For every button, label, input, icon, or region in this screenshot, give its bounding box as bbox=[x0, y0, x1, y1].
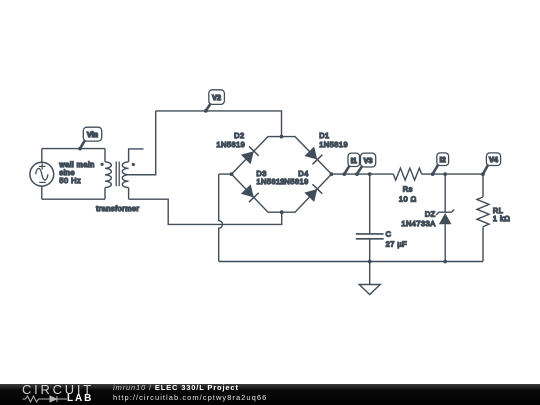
capacitor C branch wire bottom bbox=[369, 239, 371, 262]
zener diode DZ bbox=[436, 210, 454, 225]
resistor Rs bbox=[393, 168, 421, 180]
footer title text bbox=[113, 383, 267, 402]
diode D1 bbox=[304, 146, 322, 164]
V2 flag bbox=[204, 90, 225, 113]
node left of bridge bbox=[230, 172, 234, 176]
ground bbox=[359, 262, 380, 295]
svg-text:50 Hz: 50 Hz bbox=[59, 176, 81, 185]
wire RL to bottom rail bbox=[482, 227, 484, 262]
svg-text:10 Ω: 10 Ω bbox=[399, 194, 417, 203]
label D3 bbox=[256, 169, 285, 186]
wire V4 corner down to RL bbox=[482, 174, 484, 197]
svg-text:1N5819: 1N5819 bbox=[216, 140, 245, 149]
svg-text:D2: D2 bbox=[234, 131, 244, 140]
svg-text:V3: V3 bbox=[364, 156, 373, 165]
resistor RL bbox=[477, 197, 489, 227]
node zener bottom junction bbox=[443, 260, 447, 264]
node capacitor junction on top rail bbox=[368, 172, 372, 176]
svg-text:1N5819: 1N5819 bbox=[319, 140, 348, 149]
wire bridge left node stub and vertical with hop bbox=[219, 174, 232, 261]
svg-text:C: C bbox=[386, 230, 392, 239]
transformer T1 bbox=[101, 149, 144, 200]
label DZ 1N4733A bbox=[401, 209, 435, 228]
zener DZ branch wire bottom bbox=[444, 224, 446, 261]
svg-text:27 µF: 27 µF bbox=[386, 239, 408, 248]
svg-text:Vin: Vin bbox=[87, 130, 98, 139]
svg-text:transformer: transformer bbox=[96, 204, 139, 213]
wire top rail to bridge bbox=[156, 111, 282, 136]
node bottom of bridge bbox=[280, 210, 284, 214]
wire secondary bottom to bridge bottom bbox=[129, 199, 282, 224]
label C 27uF bbox=[386, 230, 408, 249]
diode D2 bbox=[241, 146, 259, 164]
svg-text:1N5819: 1N5819 bbox=[280, 177, 309, 186]
voltage source V1 wall main sine 50 Hz bbox=[30, 149, 54, 200]
V4 flag bbox=[481, 153, 501, 176]
wire bottom of source loop bbox=[42, 198, 105, 200]
node right of bridge bbox=[330, 172, 334, 176]
label V1 value bbox=[58, 160, 94, 185]
capacitor C bbox=[356, 234, 384, 239]
label D4 bbox=[280, 169, 309, 186]
I1 flag bbox=[342, 153, 359, 176]
svg-text:1 kΩ: 1 kΩ bbox=[493, 214, 510, 223]
node zener junction on top rail bbox=[443, 172, 447, 176]
V3 flag bbox=[355, 153, 376, 176]
diode D3 bbox=[241, 184, 259, 202]
bridge outline bbox=[232, 137, 332, 213]
svg-text:V2: V2 bbox=[212, 93, 221, 102]
wire secondary tap to V2 riser bbox=[129, 111, 156, 175]
zener DZ branch wire top bbox=[444, 174, 446, 212]
svg-text:I1: I1 bbox=[351, 156, 357, 165]
label Rs 10 ohm bbox=[399, 185, 417, 204]
node capacitor bottom junction bbox=[368, 260, 372, 264]
svg-text:Rs: Rs bbox=[403, 185, 413, 194]
footer bar bbox=[0, 384, 540, 405]
label D2 bbox=[216, 131, 245, 149]
wire bridge right node to Rs bbox=[332, 173, 394, 175]
Vin flag bbox=[78, 127, 102, 150]
wire bottom rail bbox=[219, 261, 483, 263]
wire Rs to V4 corner bbox=[422, 173, 483, 175]
label RL 1k bbox=[493, 206, 510, 223]
wire top of source loop bbox=[42, 148, 105, 150]
capacitor C branch wire top bbox=[369, 174, 371, 234]
node top of bridge bbox=[280, 135, 284, 139]
svg-text:I2: I2 bbox=[440, 155, 446, 164]
diode D4 bbox=[304, 184, 322, 202]
svg-text:DZ: DZ bbox=[425, 209, 436, 218]
svg-text:V4: V4 bbox=[489, 155, 498, 164]
label D1 bbox=[319, 131, 348, 149]
I2 flag bbox=[431, 153, 449, 176]
svg-text:D1: D1 bbox=[319, 131, 329, 140]
svg-text:1N4733A: 1N4733A bbox=[401, 219, 435, 228]
CircuitLab logo bbox=[22, 384, 112, 405]
